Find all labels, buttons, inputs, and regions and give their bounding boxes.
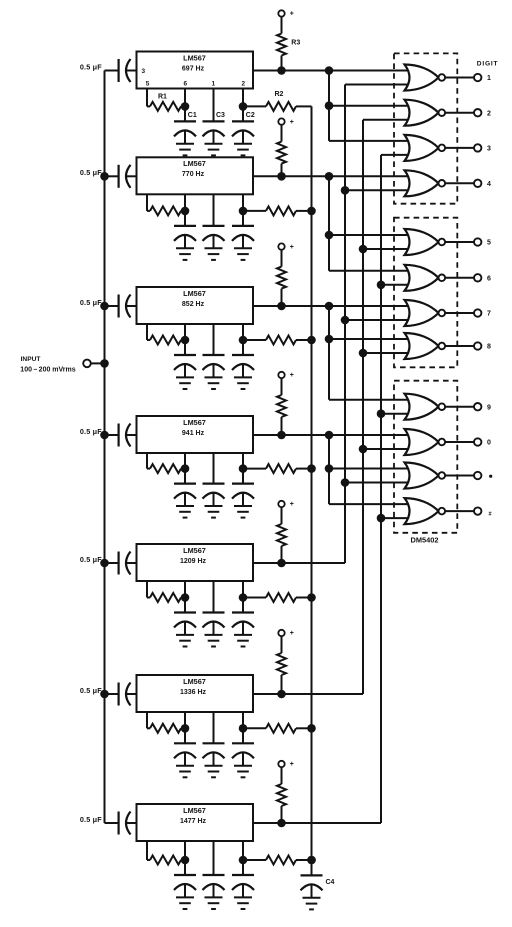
- resistor pull-up (stage 3): [277, 267, 286, 289]
- capacitor C1 timing (stage 4): [174, 483, 196, 485]
- capacitor C1 timing (stage 3): [174, 354, 196, 356]
- wire: pin2 node to filter resistor (stage 7): [243, 859, 266, 861]
- ground (stage 6 pin2 cap): [234, 765, 252, 767]
- capacitor C2 loop filter (stage 1): [232, 120, 254, 122]
- wire: pin6 stub (stage 2): [184, 194, 186, 226]
- svg-text:LM567: LM567: [183, 418, 206, 427]
- svg-text:0.5 μF: 0.5 μF: [80, 62, 102, 71]
- wire: filter resistor to bus (stage 1): [296, 105, 312, 107]
- output terminal digit 0: [474, 438, 481, 445]
- svg-text:0: 0: [487, 440, 491, 447]
- op-amp/tone-decoder U5 LM567 1209 Hz box: [137, 544, 254, 581]
- wire: gate 10 output: [445, 441, 474, 443]
- wire: pin2 stub (stage 2): [242, 194, 244, 226]
- svg-text:5: 5: [146, 81, 150, 88]
- junction: 1477 / gate9 stub: [377, 409, 386, 418]
- resistor pull-up (stage 6): [277, 653, 286, 675]
- ground (stage 2 pin1 cap): [205, 247, 223, 249]
- junction: filter resistor / C4 bus (stage 6): [307, 724, 316, 733]
- wire: gate 12 top stub (941): [329, 503, 408, 505]
- wire: filter resistor to bus (stage 2): [296, 210, 312, 212]
- svg-text:R2: R2: [275, 91, 284, 98]
- junction: 852 row / gate8 stub: [325, 335, 334, 344]
- wire: pin2 stub (stage 3): [242, 324, 244, 355]
- junction: filter resistor / C4 bus (stage 3): [307, 336, 316, 345]
- svg-text:+: +: [290, 630, 294, 637]
- resistor timing R1 (stage 1): [150, 102, 181, 111]
- wire: pin6 stub (stage 7): [184, 841, 186, 875]
- capacitor C1 timing (stage 7): [174, 874, 196, 876]
- wire: gate 12 output: [445, 510, 474, 512]
- wire: gate 7 bottom stub (1209): [345, 319, 408, 321]
- ground (stage 5 pin2 cap): [234, 634, 252, 636]
- wire: pin5 stub (stage 1): [146, 89, 148, 107]
- svg-text:LM567: LM567: [183, 806, 206, 815]
- wire: V+ stem (stage 7): [281, 767, 283, 784]
- capacitor C2 loop filter (stage 2): [232, 225, 254, 227]
- ground (stage 6 pin6 cap): [176, 765, 194, 767]
- ground (stage 5 pin6 cap): [176, 634, 194, 636]
- junction: pull-up / output (stage 7): [277, 819, 286, 828]
- junction: filter resistor / C4 bus (stage 5): [307, 593, 316, 602]
- wire: V+ stem (stage 2): [281, 125, 283, 142]
- wire: pull-up to output (stage 4): [281, 417, 283, 435]
- svg-text:LM567: LM567: [183, 289, 206, 298]
- svg-text:LM567: LM567: [183, 53, 206, 62]
- wire: pull-up to output (stage 1): [281, 56, 283, 71]
- nor-gate G3 (digit 3): [405, 135, 439, 161]
- nor-gate G12 (digit #): [405, 498, 439, 524]
- capacitor 0.5uF coupling (stage 1): [105, 70, 119, 72]
- junction: pin6/timing resistor (stage 6): [181, 724, 190, 733]
- wire: pull-up to output (stage 7): [281, 806, 283, 823]
- wire: V+ stem (stage 1): [281, 17, 283, 34]
- label digit * (star): [489, 475, 492, 478]
- resistor pull-up (stage 5): [277, 524, 286, 546]
- junction: input bus / stage 4 coupling wire: [100, 431, 109, 440]
- svg-text:1477 Hz: 1477 Hz: [180, 818, 207, 825]
- nor-gate G1 (digit 1): [405, 65, 439, 91]
- DM5402 package outline 1: [394, 53, 457, 203]
- output terminal digit 8: [474, 342, 481, 349]
- capacitor C2 loop filter (stage 3): [232, 354, 254, 356]
- wire: pin2 node to filter resistor (stage 5): [243, 597, 266, 599]
- wire: stage 3 output 852Hz to gate 7 input: [253, 305, 408, 307]
- wire: pull-up to output (stage 3): [281, 289, 283, 306]
- resistor timing (stage 6): [150, 724, 181, 733]
- wire: pin6 stub (stage 1): [184, 89, 186, 122]
- wire: V+ stem (stage 4): [281, 378, 283, 395]
- capacitor C3 output filter (stage 4): [203, 483, 225, 485]
- capacitor C1 timing (stage 2): [174, 225, 196, 227]
- wire: gate 1 bottom stub (1209): [345, 84, 408, 86]
- ground (stage 4 pin1 cap): [205, 505, 223, 507]
- wire: stage 7 output 1477Hz: [253, 822, 381, 824]
- ground (stage 2 pin6 cap): [176, 247, 194, 249]
- wire: 1336Hz column vertical: [362, 120, 364, 694]
- junction: pin6/timing resistor (stage 1): [181, 102, 190, 111]
- junction: pin6/timing resistor (stage 2): [181, 207, 190, 216]
- resistor filter R2 (stage 1): [266, 102, 296, 111]
- output terminal digit 9: [474, 403, 481, 410]
- wire: stage 2 output 770Hz to gate 4 input: [253, 175, 408, 177]
- svg-text:R3: R3: [291, 40, 300, 47]
- resistor timing (stage 3): [150, 336, 181, 345]
- junction: pin6/timing resistor (stage 3): [181, 336, 190, 345]
- wire: pin5 stub (stage 7): [146, 841, 148, 860]
- output terminal digit 6: [474, 274, 481, 281]
- junction: 1336 / gate8 stub: [359, 349, 368, 358]
- svg-text:+: +: [290, 244, 294, 251]
- wire: pin1 stub (stage 3): [213, 324, 215, 355]
- wire: pin2 node to filter resistor (stage 4): [243, 468, 266, 470]
- wire: pin6 stub (stage 6): [184, 712, 186, 743]
- junction: 941 output / row vertical: [325, 431, 334, 440]
- svg-text:0.5 μF: 0.5 μF: [80, 168, 102, 177]
- wire: pin6 stub (stage 4): [184, 453, 186, 484]
- V+ terminal (stage 5): [278, 501, 284, 507]
- wire: 852Hz row vertical: [328, 306, 330, 400]
- resistor pull-up (stage 4): [277, 395, 286, 417]
- nor-gate G8 (digit 8): [405, 333, 439, 359]
- nor-gate G7 (digit 7): [405, 300, 439, 326]
- svg-text:9: 9: [487, 404, 491, 411]
- svg-text:LM567: LM567: [183, 546, 206, 555]
- svg-text:0.5 μF: 0.5 μF: [80, 555, 102, 564]
- ground (stage 3 pin6 cap): [176, 376, 194, 378]
- svg-text:LM567: LM567: [183, 159, 206, 168]
- wire: 697Hz row vertical: [328, 71, 330, 141]
- svg-text:C4: C4: [326, 879, 335, 886]
- wire: gate 3 output: [445, 147, 474, 149]
- svg-text:1: 1: [212, 81, 216, 88]
- svg-text:4: 4: [487, 181, 491, 188]
- svg-text:5: 5: [487, 240, 491, 247]
- wire: 770Hz row vertical: [328, 176, 330, 270]
- capacitor C3 output filter (stage 2): [203, 225, 225, 227]
- V+ terminal (stage 1): [278, 10, 284, 16]
- junction: 941 row / gate11 stub: [325, 464, 334, 473]
- wire: V+ stem (stage 5): [281, 507, 283, 524]
- output terminal digit 2: [474, 109, 481, 116]
- svg-text:R1: R1: [158, 94, 167, 101]
- wire: gate 8 bottom stub (1336): [363, 352, 408, 354]
- svg-text:3: 3: [142, 68, 146, 75]
- wire: gate 5 bottom stub (1336): [363, 248, 408, 250]
- wire: filter resistor to bus (stage 4): [296, 468, 312, 470]
- resistor filter (stage 3): [266, 336, 296, 345]
- capacitor C2 loop filter (stage 5): [232, 611, 254, 613]
- nor-gate G6 (digit 6): [405, 265, 439, 291]
- svg-text:LM567: LM567: [183, 677, 206, 686]
- wire: pull-up to output (stage 2): [281, 164, 283, 177]
- V+ terminal (stage 4): [278, 372, 284, 378]
- wire: gate 4 bottom stub (1209): [345, 189, 408, 191]
- wire: gate 11 output: [445, 475, 474, 477]
- svg-text:852 Hz: 852 Hz: [182, 301, 205, 308]
- wire: filter resistor to bus (stage 7): [296, 859, 312, 861]
- svg-text:DIGIT: DIGIT: [477, 60, 499, 67]
- wire: stage 5 output 1209Hz: [253, 562, 345, 564]
- resistor filter (stage 4): [266, 464, 296, 473]
- junction: pin6/timing resistor (stage 5): [181, 593, 190, 602]
- svg-text:DM5402: DM5402: [411, 536, 439, 545]
- ground (stage 4 pin2 cap): [234, 505, 252, 507]
- capacitor C1 timing (stage 5): [174, 611, 196, 613]
- resistor timing (stage 5): [150, 593, 181, 602]
- ground (stage 4 pin6 cap): [176, 505, 194, 507]
- resistor filter (stage 2): [266, 206, 296, 215]
- DM5402 package outline 2: [394, 218, 457, 368]
- wire: resistor to pin6 node (stage 1): [181, 105, 185, 107]
- wire: pin2 stub (stage 1): [242, 89, 244, 122]
- junction: 1209 / gate7 stub: [341, 316, 350, 325]
- ground (stage 1 pin6 cap): [176, 143, 194, 145]
- wire: pin2 node to filter resistor (stage 2): [243, 210, 266, 212]
- op-amp/tone-decoder U2 LM567 770 Hz box: [137, 157, 254, 194]
- wire: 1209Hz column vertical: [344, 85, 346, 564]
- wire: pin1 stub (stage 2): [213, 194, 215, 226]
- junction: 1209 / gate11 stub: [341, 478, 350, 487]
- capacitor C1 timing (stage 6): [174, 742, 196, 744]
- wire: V+ stem (stage 6): [281, 636, 283, 653]
- wire: pull-up to output (stage 5): [281, 546, 283, 563]
- svg-text:0.5 μF: 0.5 μF: [80, 427, 102, 436]
- junction: input bus / stage 2 coupling wire: [100, 172, 109, 181]
- V+ terminal (stage 7): [278, 761, 284, 767]
- capacitor C3 output filter (stage 3): [203, 354, 225, 356]
- wire: gate 1 output: [445, 77, 474, 79]
- wire: gate 10 bottom stub (1336): [363, 448, 408, 450]
- svg-text:0.5 μF: 0.5 μF: [80, 686, 102, 695]
- wire: gate 9 bottom stub (1477): [381, 413, 408, 415]
- junction: pin2/filter resistor (stage 6): [239, 724, 248, 733]
- wire: 1477Hz column vertical: [380, 155, 382, 823]
- op-amp/tone-decoder U1 LM567 697 Hz box: [137, 52, 254, 89]
- wire: resistor to pin6 node (stage 2): [181, 210, 185, 212]
- svg-text:6: 6: [487, 275, 491, 282]
- junction: 1209 / gate4 stub: [341, 186, 350, 195]
- junction: filter resistor / C4 bus (stage 4): [307, 464, 316, 473]
- wire: resistor to pin6 node (stage 7): [181, 859, 185, 861]
- junction: pin2/filter resistor (stage 5): [239, 593, 248, 602]
- DM5402 package outline 3: [394, 381, 457, 533]
- nor-gate G11 (digit *): [405, 463, 439, 489]
- wire: gate 8 output: [445, 345, 474, 347]
- ground (stage 6 pin1 cap): [205, 765, 223, 767]
- svg-text:0.5 μF: 0.5 μF: [80, 815, 102, 824]
- wire: filter resistor to bus (stage 3): [296, 339, 312, 341]
- resistor timing (stage 2): [150, 206, 181, 215]
- junction: 770 output / row vertical: [325, 172, 334, 181]
- output terminal digit 1: [474, 74, 481, 81]
- ground (stage 7 pin6 cap): [176, 896, 194, 898]
- capacitor C2 loop filter (stage 4): [232, 483, 254, 485]
- wire: pin5 stub (stage 4): [146, 453, 148, 469]
- svg-text:1: 1: [487, 75, 491, 82]
- svg-text:770 Hz: 770 Hz: [182, 171, 205, 178]
- wire: resistor to pin6 node (stage 3): [181, 339, 185, 341]
- junction: 1336 / gate5 stub: [359, 245, 368, 254]
- junction: pull-up / output (stage 5): [277, 559, 286, 568]
- wire: stage 4 output 941Hz to gate 10 input: [253, 434, 408, 436]
- wire: pin2 stub (stage 6): [242, 712, 244, 743]
- capacitor 0.5uF coupling (stage 5): [105, 562, 119, 564]
- wire: V+ stem (stage 3): [281, 250, 283, 267]
- wire: pin5 stub (stage 2): [146, 194, 148, 211]
- capacitor 0.5uF coupling (stage 3): [105, 305, 119, 307]
- resistor pull-up R3 (stage 1): [277, 34, 286, 56]
- capacitor C3 output filter (stage 5): [203, 611, 225, 613]
- wire: resistor to pin6 node (stage 5): [181, 597, 185, 599]
- wire: pin1 stub (stage 6): [213, 712, 215, 743]
- ground (stage 1 pin2 cap): [234, 143, 252, 145]
- op-amp/tone-decoder U4 LM567 941 Hz box: [137, 416, 254, 453]
- resistor pull-up (stage 7): [277, 784, 286, 806]
- junction: filter resistor / C4 bus (stage 2): [307, 207, 316, 216]
- junction: 852 output / row vertical: [325, 302, 334, 311]
- svg-text:697 Hz: 697 Hz: [182, 65, 205, 72]
- output terminal digit #: [474, 507, 481, 514]
- input terminal: [83, 360, 91, 368]
- nor-gate G2 (digit 2): [405, 100, 439, 126]
- wire: gate 12 bottom stub (1477): [381, 517, 408, 519]
- capacitor C4: [311, 860, 313, 875]
- junction: pull-up / output (stage 1): [277, 66, 286, 75]
- wire: gate 8 top stub (852): [329, 338, 408, 340]
- junction: pull-up / output (stage 3): [277, 302, 286, 311]
- svg-text:C3: C3: [216, 112, 225, 119]
- wire: gate 9 top stub (852): [329, 399, 408, 401]
- nor-gate G5 (digit 5): [405, 229, 439, 255]
- op-amp/tone-decoder U3 LM567 852 Hz box: [137, 287, 254, 324]
- svg-text:8: 8: [487, 344, 491, 351]
- junction: pin6/timing resistor (stage 7): [181, 856, 190, 865]
- wire: filter resistor to bus (stage 5): [296, 597, 312, 599]
- wire: pin2 stub (stage 4): [242, 453, 244, 484]
- svg-text:1336 Hz: 1336 Hz: [180, 689, 207, 696]
- wire: pin1 stub (stage 7): [213, 841, 215, 875]
- svg-text:2: 2: [242, 81, 246, 88]
- wire: gate 2 bottom stub (1336): [363, 119, 408, 121]
- svg-text:+: +: [290, 501, 294, 508]
- wire: filter resistor to bus (stage 6): [296, 727, 312, 729]
- ground (stage 7 pin2 cap): [234, 896, 252, 898]
- svg-text:0.5 μF: 0.5 μF: [80, 298, 102, 307]
- junction: pull-up / output (stage 4): [277, 431, 286, 440]
- wire: pin5 stub (stage 3): [146, 324, 148, 340]
- wire: input signal bus (vertical): [104, 71, 106, 824]
- capacitor C3 output filter (stage 6): [203, 742, 225, 744]
- wire: gate 7 output: [445, 312, 474, 314]
- wire: pin1 stub (stage 5): [213, 581, 215, 613]
- svg-text:2: 2: [487, 110, 491, 117]
- svg-text:6: 6: [184, 81, 188, 88]
- wire: pin2 node to filter resistor (stage 3): [243, 339, 266, 341]
- ground (stage 1 pin1 cap): [205, 143, 223, 145]
- wire: gate 11 top stub (941): [329, 468, 408, 470]
- svg-text:7: 7: [487, 311, 491, 318]
- resistor filter (stage 7): [266, 856, 296, 865]
- wire: gate 6 output: [445, 277, 474, 279]
- output terminal digit 7: [474, 309, 481, 316]
- ground (stage 2 pin2 cap): [234, 247, 252, 249]
- resistor timing (stage 4): [150, 464, 181, 473]
- junction: 697 row / gate2 stub: [325, 101, 334, 110]
- capacitor 0.5uF coupling (stage 7): [105, 822, 119, 824]
- junction: 770 row / gate5 stub: [325, 231, 334, 240]
- junction: bus / C4: [307, 856, 316, 865]
- junction: input bus / stage 3 coupling wire: [100, 302, 109, 311]
- wire: gate 5 top stub (770): [329, 234, 408, 236]
- svg-text:+: +: [290, 11, 294, 18]
- nor-gate G9 (digit 9): [405, 394, 439, 420]
- wire: pin6 stub (stage 5): [184, 581, 186, 613]
- junction: pin6/timing resistor (stage 4): [181, 464, 190, 473]
- ground (stage 7 pin1 cap): [205, 896, 223, 898]
- op-amp/tone-decoder U7 LM567 1477 Hz box: [137, 804, 254, 841]
- junction: input bus / stage 5 coupling wire: [100, 559, 109, 568]
- junction: pin2/filter resistor (stage 1): [239, 102, 248, 111]
- svg-text:C1: C1: [188, 112, 197, 119]
- wire: pin2 node to filter resistor (stage 1): [243, 105, 266, 107]
- junction: input bus / stage 6 coupling wire: [100, 690, 109, 699]
- nor-gate G10 (digit 0): [405, 429, 439, 455]
- junction: pull-up / output (stage 2): [277, 172, 286, 181]
- wire: gate 6 top stub (770): [329, 270, 408, 272]
- wire: gate 4 output: [445, 182, 474, 184]
- junction: pin2/filter resistor (stage 4): [239, 464, 248, 473]
- wire: 941Hz row vertical: [328, 435, 330, 504]
- junction: 1477 / gate6 stub: [377, 281, 386, 290]
- output terminal digit *: [474, 472, 481, 479]
- svg-text:+: +: [290, 761, 294, 768]
- resistor filter (stage 5): [266, 593, 296, 602]
- junction: 1477 / gate12 stub: [377, 514, 386, 523]
- op-amp/tone-decoder U6 LM567 1336 Hz box: [137, 675, 254, 712]
- ground (C4): [303, 897, 321, 899]
- wire: pull-up to output (stage 6): [281, 675, 283, 694]
- junction: 1336 / gate10 stub: [359, 445, 368, 454]
- wire: gate 2 output: [445, 112, 474, 114]
- wire: stage 1 output 697Hz to gate 1 input: [253, 70, 408, 72]
- wire: pin2 node to filter resistor (stage 6): [243, 727, 266, 729]
- output terminal digit 4: [474, 180, 481, 187]
- svg-text:+: +: [290, 119, 294, 126]
- resistor timing (stage 7): [150, 856, 181, 865]
- svg-text:+: +: [290, 372, 294, 379]
- wire: gate 11 bottom stub (1209): [345, 482, 408, 484]
- ground (stage 3 pin2 cap): [234, 376, 252, 378]
- capacitor 0.5uF coupling (stage 2): [105, 175, 119, 177]
- wire: filter bus to C4 (vertical): [311, 106, 313, 860]
- capacitor 0.5uF coupling (stage 4): [105, 434, 119, 436]
- wire: stage 6 output 1336Hz: [253, 693, 363, 695]
- capacitor C1 timing (stage 1): [174, 120, 196, 122]
- resistor filter (stage 6): [266, 724, 296, 733]
- junction: pin2/filter resistor (stage 7): [239, 856, 248, 865]
- svg-text:941 Hz: 941 Hz: [182, 430, 205, 437]
- wire: pin5 stub (stage 6): [146, 712, 148, 728]
- svg-text:1209 Hz: 1209 Hz: [180, 558, 207, 565]
- svg-text:INPUT: INPUT: [21, 356, 41, 363]
- capacitor C3 output filter (stage 1): [203, 120, 225, 122]
- junction: pin2/filter resistor (stage 3): [239, 336, 248, 345]
- wire: gate 5 output: [445, 241, 474, 243]
- ground (stage 3 pin1 cap): [205, 376, 223, 378]
- junction: pull-up / output (stage 6): [277, 690, 286, 699]
- junction: input bus / input terminal: [100, 359, 109, 368]
